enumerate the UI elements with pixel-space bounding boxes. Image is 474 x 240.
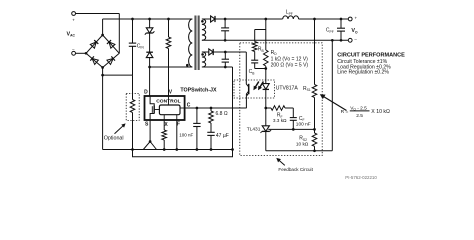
svg-text:+: +: [355, 16, 358, 21]
svg-text:100 nF: 100 nF: [296, 122, 311, 128]
junction bridge left vertex: [85, 52, 88, 55]
junction DC- node: [101, 74, 104, 77]
label CIRCUIT PERFORMANCE block: [337, 52, 405, 75]
wire S kelvin tent: [143, 142, 156, 150]
svg-text:TOPSwitch-JX: TOPSwitch-JX: [180, 87, 217, 93]
wire power return loop: [133, 150, 233, 157]
output diode D6: [211, 16, 215, 22]
arrow formula to RS1: [323, 96, 347, 110]
wire optional resistor to bus: [132, 113, 134, 150]
wire source bus: [103, 149, 233, 151]
svg-text:+: +: [72, 17, 75, 22]
wire to optional resistor: [132, 75, 134, 99]
wire mosfet to control block: [154, 109, 159, 111]
bridge edge lower-right: [103, 53, 120, 67]
junction bus right end: [231, 148, 234, 151]
wire S pin down: [149, 120, 151, 142]
arrow optional callout: [115, 125, 124, 133]
MOSFET internal: [150, 96, 154, 120]
junction optional resistor on bus: [131, 148, 134, 151]
svg-text:CIRCUIT PERFORMANCE: CIRCUIT PERFORMANCE: [337, 52, 405, 58]
opto light arrow 2: [260, 82, 264, 88]
junction ground exit on return rail: [331, 39, 334, 42]
junction drain node: [148, 66, 151, 69]
svg-text:200 Ω (Vο = 5 V): 200 Ω (Vο = 5 V): [271, 62, 309, 68]
inductor LPF: [283, 16, 299, 19]
wire bias winding to diode: [202, 51, 209, 53]
junction CF on ref line: [292, 128, 295, 131]
wire down to bridge right vertex: [118, 14, 120, 54]
svg-text:2.5: 2.5: [356, 113, 363, 119]
resistor RS2: [312, 130, 317, 151]
bridge diode D2 (right-top): [109, 42, 115, 48]
svg-text:C: C: [187, 102, 191, 108]
bridge edge lower-left: [86, 53, 103, 67]
dashed box optocoupler U2: [234, 80, 275, 98]
capacitor 100nF control: [193, 108, 200, 150]
bridge edge upper-right: [103, 35, 120, 53]
bias diode D7: [209, 49, 213, 55]
svg-text:UTV817A: UTV817A: [276, 85, 299, 91]
resistor optional (X-pin current limit): [130, 100, 135, 113]
phase dot bias winding: [201, 53, 204, 56]
wire primary bottom to drain node: [150, 66, 193, 68]
resistor RB: [252, 30, 257, 52]
junction RD feed on rail: [264, 18, 267, 21]
phase dot primary: [186, 64, 189, 67]
dashed box optional: [126, 93, 139, 120]
TOPSwitch-JX U1 body: [145, 96, 185, 120]
arrow feedback circuit callout: [279, 160, 285, 166]
wire CB to LED node: [255, 68, 266, 70]
wire output V+ rail: [215, 18, 348, 20]
svg-text:100 nF: 100 nF: [179, 132, 193, 137]
junction CIN top on rail: [131, 18, 134, 21]
output terminal +: [348, 16, 357, 21]
svg-text:47 µF: 47 µF: [216, 133, 229, 139]
wire output return rail: [202, 39, 348, 41]
label formula R: [341, 105, 390, 119]
opto LED: [262, 69, 269, 109]
svg-text:X 10 kΩ: X 10 kΩ: [371, 109, 390, 115]
junction divider feed on rail: [313, 18, 316, 21]
resistor 6.8 ohm: [209, 108, 214, 132]
wire bias return down to bus: [232, 67, 234, 150]
junction 100nF bottom: [196, 148, 199, 151]
transformer core bar left: [194, 16, 196, 71]
wire DC+ rail: [103, 18, 193, 20]
junction RLS top on rail: [167, 18, 170, 21]
wire feedback ground to return rail: [331, 40, 333, 151]
resistor RLS line sense: [166, 19, 171, 96]
wire AC bottom to bridge left vertex: [76, 52, 87, 54]
capacitor CB: [251, 52, 258, 69]
wire bridge bottom down to return bus: [102, 68, 104, 150]
wire bias to opto collector: [245, 52, 247, 80]
junction C1 top: [224, 18, 227, 21]
wire rail to RB RD: [265, 19, 267, 30]
wire C pin line: [185, 107, 247, 109]
capacitor CF: [290, 108, 297, 130]
svg-text:TL431: TL431: [247, 127, 261, 133]
control block internal: [159, 105, 180, 115]
svg-text:F: F: [177, 121, 180, 127]
junction 6.8ohm top: [210, 107, 213, 110]
wire V pin internal: [168, 96, 170, 105]
wire control to C pin: [180, 107, 185, 109]
wire TL431 ref line: [268, 128, 314, 130]
resistor RS1: [312, 19, 317, 130]
svg-text:1 kΩ (Vο = 12 V): 1 kΩ (Vο = 12 V): [271, 56, 309, 62]
bridge edge upper-left: [86, 35, 103, 53]
svg-text:3.3 kΩ: 3.3 kΩ: [273, 118, 287, 123]
wire RB RD top: [255, 29, 266, 31]
junction ref on divider: [313, 128, 316, 131]
bridge diode D3 (bottom-left): [92, 59, 98, 65]
resistor RD: [264, 30, 269, 69]
junction bias cap top: [224, 51, 227, 54]
wire bridge top to DC+ rail: [102, 19, 104, 35]
wire AC top to bridge right: [76, 13, 120, 15]
phase dot secondary: [201, 20, 204, 23]
wire secondary top to output diode: [202, 18, 210, 20]
svg-text:Feedback Circuit: Feedback Circuit: [278, 167, 313, 172]
junction clamp top on rail: [148, 18, 151, 21]
junction bias cap bottom: [224, 66, 227, 69]
zener clamp VR1: [145, 19, 155, 35]
AC input terminal bottom: [72, 46, 76, 55]
junction X resistor on bus: [163, 148, 166, 151]
capacitor C1 output: [221, 19, 229, 40]
transformer core bar right: [198, 16, 200, 71]
TL431 U3: [261, 108, 272, 151]
AC input terminal top: [72, 12, 76, 23]
dashed box feedback circuit: [240, 43, 322, 156]
resistor RIL on X pin: [162, 120, 167, 150]
svg-text:Optional: Optional: [104, 136, 124, 142]
junction CPF bottom: [340, 39, 343, 42]
junction TL431 cathode node: [264, 107, 267, 110]
wire F pin internal: [176, 115, 178, 120]
transformer T1 bias winding: [202, 52, 206, 67]
wire drain node to D pin: [149, 67, 151, 96]
junction CPF top: [340, 18, 343, 21]
output terminal -: [348, 37, 357, 42]
svg-text:Line Regulation ±0.2%: Line Regulation ±0.2%: [337, 70, 389, 76]
junction bridge bottom vertex: [101, 66, 104, 69]
inductor LPF background: [283, 15, 299, 23]
wire feedback ground line: [266, 150, 333, 152]
transformer T1 secondary winding: [202, 19, 206, 40]
bridge diode D1 (left-top): [90, 42, 96, 48]
junction 100nF top: [196, 107, 199, 110]
wire bias return: [202, 66, 233, 68]
transformer T1 primary winding: [189, 19, 193, 67]
bridge diode D4 (bottom-right): [107, 59, 113, 65]
opto light arrow 1: [255, 82, 259, 88]
junction RS2 bottom: [313, 149, 316, 152]
wire bias rail: [214, 51, 247, 53]
junction F on bus: [175, 148, 178, 151]
svg-text:D: D: [144, 90, 148, 96]
resistor RF: [266, 106, 294, 111]
capacitor 47uF: [207, 132, 214, 149]
junction LED anode node: [264, 67, 267, 70]
wire F pin to bus: [176, 120, 178, 150]
svg-text:6.8 Ω: 6.8 Ω: [216, 111, 228, 117]
wire between clamp diodes: [149, 33, 151, 52]
wire X pin internal: [163, 115, 165, 120]
capacitor CPF: [337, 19, 345, 40]
wire DC- to CIN bottom: [103, 74, 133, 76]
junction S kelvin point: [149, 140, 152, 143]
svg-text:10 kΩ: 10 kΩ: [296, 142, 309, 147]
blocking diode D5: [146, 52, 153, 67]
capacitor CIN: [129, 19, 136, 75]
junction bridge top vertex: [101, 34, 104, 37]
svg-text:PI-5762-022210: PI-5762-022210: [345, 175, 377, 180]
opto phototransistor: [246, 80, 249, 108]
junction 47uF bottom: [210, 148, 213, 151]
junction C1 bottom: [224, 39, 227, 42]
capacitor bias filter: [222, 52, 229, 67]
